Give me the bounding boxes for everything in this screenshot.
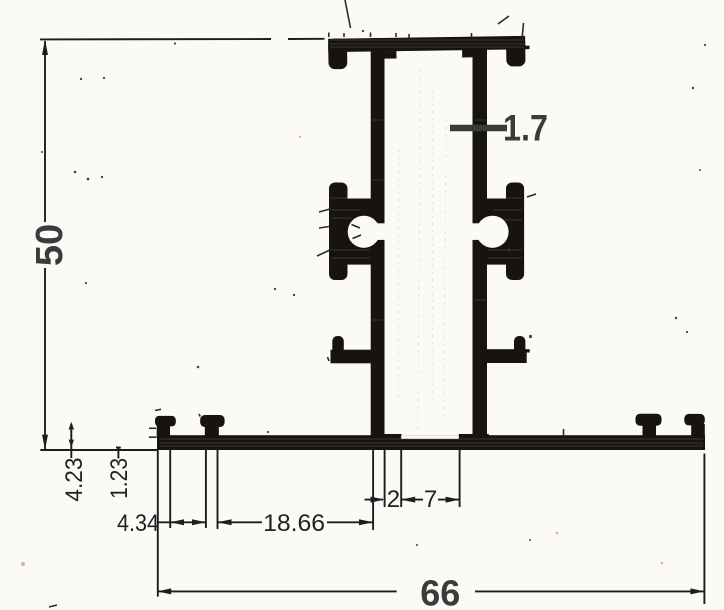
svg-text:1.7: 1.7: [503, 107, 548, 148]
svg-text:66: 66: [420, 573, 460, 610]
svg-text:1.23: 1.23: [106, 458, 133, 499]
svg-text:4.23: 4.23: [61, 458, 88, 502]
svg-text:2: 2: [387, 486, 400, 513]
svg-text:4.34: 4.34: [117, 510, 159, 537]
svg-text:50: 50: [29, 224, 71, 266]
svg-text:18.66: 18.66: [263, 510, 325, 537]
svg-text:7: 7: [424, 486, 437, 513]
